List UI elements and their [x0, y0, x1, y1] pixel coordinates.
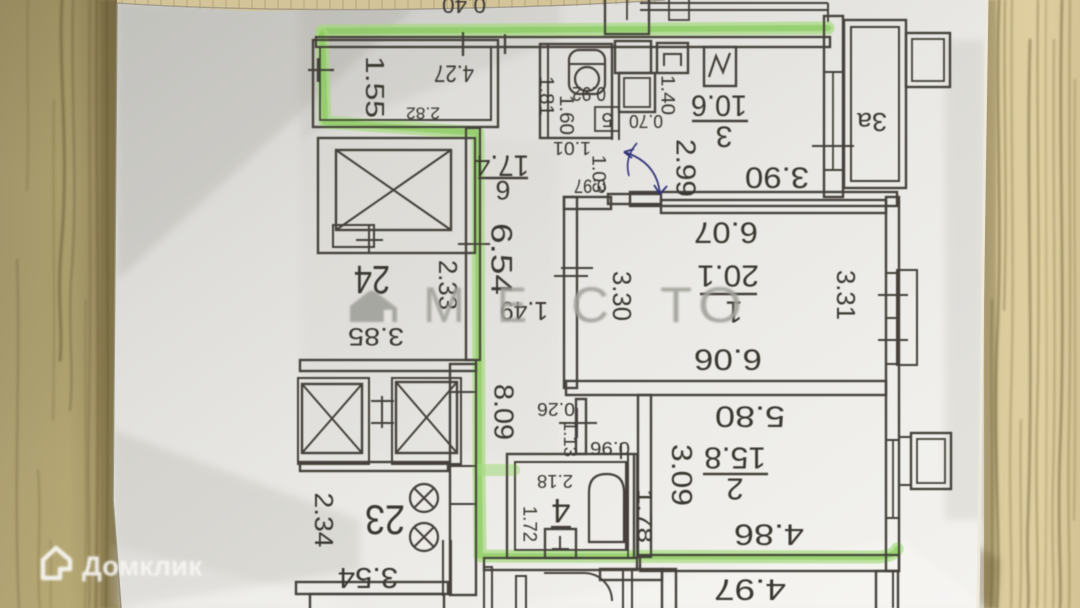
svg-text:10.6: 10.6 — [691, 89, 747, 122]
svg-text:5.80: 5.80 — [715, 400, 785, 433]
svg-text:3.31: 3.31 — [831, 270, 861, 320]
svg-text:1.40: 1.40 — [657, 75, 678, 115]
svg-text:0.96: 0.96 — [590, 438, 630, 458]
svg-text:8.09: 8.09 — [489, 384, 520, 440]
svg-text:3: 3 — [716, 120, 733, 153]
svg-text:3.09: 3.09 — [665, 444, 697, 506]
svg-text:1.13: 1.13 — [560, 421, 580, 457]
svg-text:23: 23 — [365, 497, 405, 544]
svg-text:15.8: 15.8 — [704, 441, 766, 476]
svg-text:4.86: 4.86 — [734, 518, 804, 551]
svg-text:6: 6 — [495, 175, 510, 205]
svg-text:4: 4 — [552, 491, 571, 529]
svg-text:1.03: 1.03 — [588, 155, 609, 193]
svg-text:6.07: 6.07 — [694, 216, 758, 249]
svg-text:3.54: 3.54 — [338, 561, 398, 593]
svg-text:Е: Е — [497, 277, 527, 333]
svg-text:0.40: 0.40 — [442, 0, 486, 18]
svg-text:6.06: 6.06 — [694, 343, 762, 376]
svg-text:5: 5 — [601, 108, 612, 130]
svg-text:Домклик: Домклик — [82, 551, 203, 582]
svg-text:1.81: 1.81 — [535, 76, 557, 116]
svg-text:2: 2 — [726, 472, 743, 507]
svg-text:2.34: 2.34 — [309, 493, 339, 548]
svg-text:1.01: 1.01 — [553, 138, 591, 158]
svg-text:4.27: 4.27 — [434, 60, 474, 87]
svg-text:О: О — [698, 277, 742, 333]
svg-text:1.78: 1.78 — [633, 489, 655, 543]
svg-text:1.72: 1.72 — [519, 506, 540, 542]
svg-text:1.60: 1.60 — [555, 95, 577, 135]
svg-text:2.18: 2.18 — [537, 471, 573, 491]
svg-text:М: М — [423, 277, 465, 333]
svg-text:3.90: 3.90 — [745, 161, 809, 194]
svg-text:1.55: 1.55 — [360, 56, 390, 118]
svg-text:3а: 3а — [856, 107, 887, 137]
svg-text:С: С — [571, 277, 609, 333]
svg-text:2.99: 2.99 — [671, 139, 702, 197]
svg-text:3.85: 3.85 — [348, 322, 404, 350]
svg-text:0.26: 0.26 — [537, 399, 575, 419]
svg-text:3.30: 3.30 — [607, 271, 637, 321]
svg-text:4.97: 4.97 — [714, 573, 786, 606]
svg-text:2.82: 2.82 — [406, 104, 440, 123]
svg-text:Т: Т — [660, 277, 692, 333]
